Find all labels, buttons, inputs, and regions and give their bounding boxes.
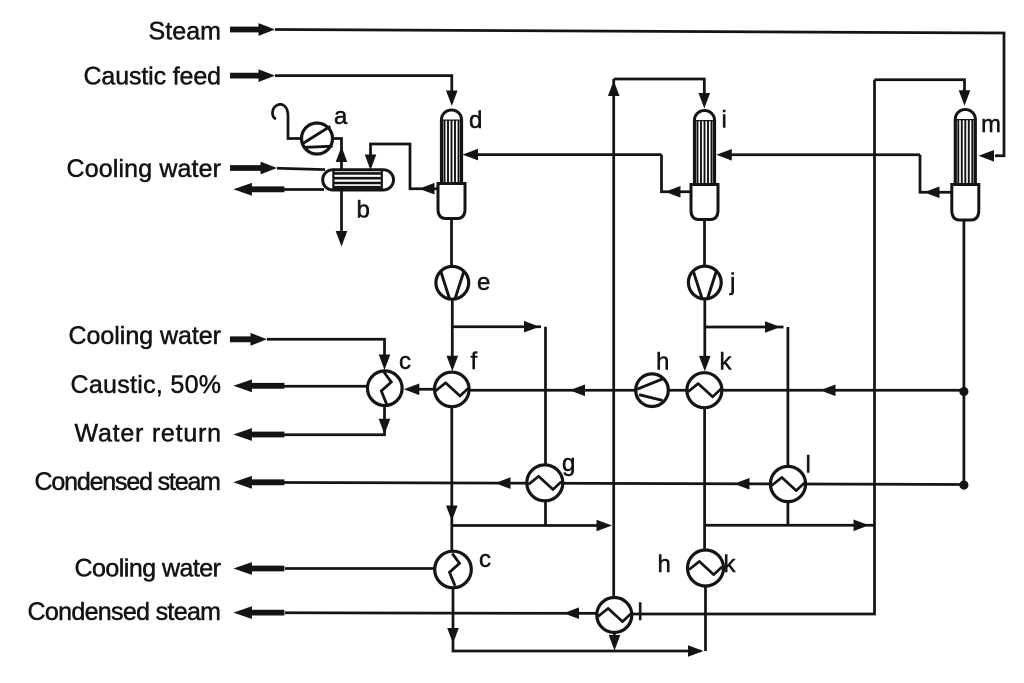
svg-text:e: e [477,269,490,296]
svg-text:g: g [562,450,575,477]
svg-text:d: d [469,107,482,134]
svg-text:Water return: Water return [75,420,222,448]
svg-text:Condensed steam: Condensed steam [28,598,222,626]
svg-text:h: h [656,349,669,376]
svg-text:c: c [479,546,491,573]
svg-text:a: a [334,103,348,130]
svg-text:l: l [806,452,811,479]
svg-text:Cooling water: Cooling water [75,555,222,583]
svg-text:f: f [471,348,478,375]
svg-text:Cooling water: Cooling water [67,155,222,183]
svg-text:l: l [638,599,643,626]
svg-text:Condensed steam: Condensed steam [35,468,222,496]
svg-text:h: h [658,551,671,578]
svg-text:Cooling water: Cooling water [69,322,222,350]
svg-text:i: i [722,107,727,134]
svg-text:Caustic, 50%: Caustic, 50% [71,371,222,399]
svg-text:Steam: Steam [149,18,222,46]
svg-text:Caustic feed: Caustic feed [84,62,222,90]
svg-text:j: j [729,269,735,296]
svg-text:k: k [720,349,733,376]
svg-text:m: m [981,111,1001,138]
svg-text:b: b [357,197,370,224]
svg-text:c: c [399,348,411,375]
svg-text:k: k [724,551,737,578]
